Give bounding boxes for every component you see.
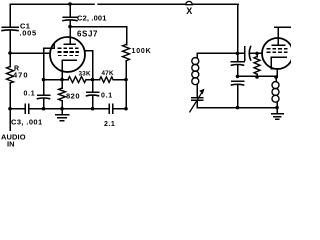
svg-text:.005: .005 [20, 29, 37, 38]
svg-text:470: 470 [13, 70, 29, 79]
svg-text:47K: 47K [102, 70, 114, 77]
svg-text:X: X [186, 6, 192, 16]
svg-text:100K: 100K [132, 48, 152, 55]
svg-text:820: 820 [66, 91, 80, 100]
svg-text:33K: 33K [79, 71, 91, 78]
svg-text:6SJ7: 6SJ7 [77, 30, 98, 39]
svg-text:2.1: 2.1 [104, 121, 115, 128]
svg-text:C3, .001: C3, .001 [11, 117, 43, 126]
svg-text:0.1: 0.1 [101, 92, 113, 99]
svg-text:IN: IN [7, 140, 15, 148]
svg-text:0.1: 0.1 [24, 90, 36, 97]
svg-text:C2, .001: C2, .001 [77, 14, 107, 23]
